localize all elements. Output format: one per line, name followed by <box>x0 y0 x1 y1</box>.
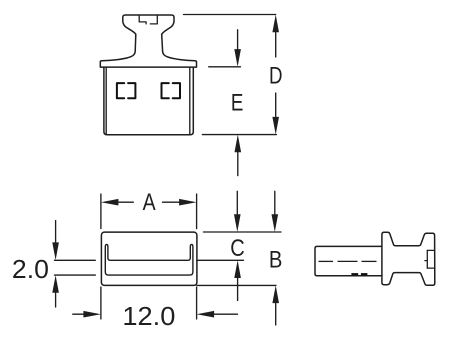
dimension A line left with arrow <box>117 201 133 203</box>
side view: centerline dash 2 <box>338 260 358 262</box>
dimension E lower arrow (up) <box>237 150 239 176</box>
extension line: strip bottom left (for 2.0) <box>55 274 96 276</box>
front view: body inner wall line left <box>105 68 107 134</box>
side view: spool body outline <box>382 232 435 285</box>
side view: shaft <box>315 246 382 275</box>
side view: head slot bottom line <box>427 267 434 269</box>
extension line: body right (for A) <box>196 194 198 229</box>
dimension B lower arrow (up) <box>275 301 277 325</box>
svg-text:E: E <box>231 89 244 116</box>
extension line: top of part (for D) <box>184 14 276 16</box>
front view: outline (cap, stem, skirt and flange plate) <box>100 15 196 67</box>
extension line: body left (for A) <box>100 194 102 229</box>
front view: body outline <box>104 68 193 135</box>
extension line: body bottom right (for B) <box>197 284 276 286</box>
extension line: strip top right (for C) <box>197 259 244 261</box>
front view: right window bracket ] <box>173 83 180 98</box>
svg-text:12.0: 12.0 <box>122 303 175 331</box>
front view: body inner wall line right <box>189 68 191 134</box>
extension line: flange bottom (for E) <box>209 66 241 68</box>
side view: centerline dash 1 <box>319 260 334 262</box>
front view: left window bracket ] <box>128 83 135 98</box>
dimension D upper arrow (up) <box>275 30 277 57</box>
bottom view: spring strip cross-section <box>105 245 193 276</box>
svg-text:D: D <box>269 63 283 90</box>
dimension E upper arrow (down) <box>237 30 239 51</box>
front view: left window bracket [ <box>117 83 124 98</box>
svg-text:C: C <box>230 235 245 262</box>
side view: head slot vertical <box>426 250 428 268</box>
extension line: strip top left (for 2.0) <box>55 259 96 261</box>
svg-text:A: A <box>143 189 156 216</box>
front view: right window bracket [ <box>162 83 169 98</box>
svg-text:2.0: 2.0 <box>12 256 49 284</box>
side view: head slot middle tick <box>425 260 427 262</box>
dimension B upper arrow (down) <box>274 191 276 216</box>
dimension C lower arrow (up) <box>237 277 239 301</box>
front view: cap notch <box>139 15 157 24</box>
extension line: body right lower (for 12.0) <box>196 287 198 319</box>
dimension 2.0 lower arrow (up) <box>55 291 57 307</box>
dimension 2.0 upper arrow (down) <box>55 221 57 245</box>
side view: head slot top line <box>427 249 434 251</box>
bottom view: body outline <box>101 232 196 285</box>
dimension 12.0 left arrow (right) <box>73 313 85 315</box>
dimension 12.0 right arrow (left) <box>212 313 238 315</box>
side view: hidden line dash 2 <box>361 273 368 275</box>
extension line: bottom of part (for D and E) <box>202 134 276 136</box>
svg-text:B: B <box>269 247 283 274</box>
extension line: body top right (for C and B) <box>203 231 281 233</box>
dimension C upper arrow (down) <box>236 191 238 216</box>
dimension A line right with arrow <box>163 201 181 203</box>
side view: centerline dash 3 <box>362 260 377 262</box>
side view: hidden line dash 1 <box>351 273 358 275</box>
extension line: body left lower (for 12.0) <box>100 287 102 319</box>
dimension D lower arrow (down) <box>275 93 277 120</box>
